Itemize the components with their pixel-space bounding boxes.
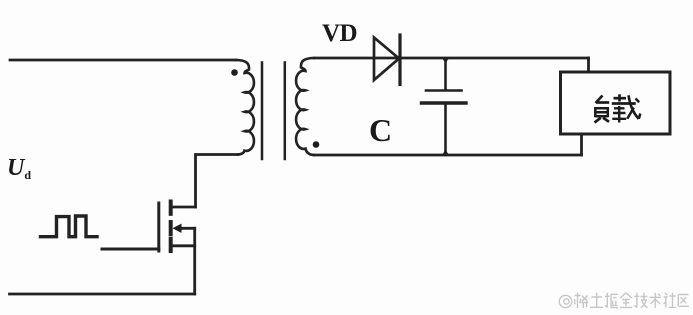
wire: gate lead — [102, 248, 159, 251]
load box — [561, 72, 671, 134]
wire: drain lead — [173, 206, 196, 209]
MOSFET Q1 drain bar — [169, 202, 173, 214]
社 — [664, 293, 677, 308]
载 — [618, 94, 621, 101]
MOSFET Q1 source bar — [169, 239, 173, 251]
node: capacitor top junction — [442, 57, 450, 64]
transformer T1 primary winding — [236, 60, 254, 155]
负 — [596, 96, 603, 104]
土 — [590, 293, 603, 308]
capacitor C bottom plate — [422, 101, 467, 104]
技 — [635, 293, 648, 308]
@ — [559, 295, 571, 307]
capacitor C top plate — [426, 89, 462, 92]
transformer T1 secondary winding — [296, 58, 314, 155]
label VD — [322, 20, 357, 48]
wire: DC input positive rail (top left) — [10, 59, 236, 62]
MOSFET Q1 gate line — [157, 203, 160, 251]
diode VD triangle — [374, 38, 399, 81]
polarity dot (secondary) — [313, 141, 320, 148]
wire: secondary top rail — [314, 57, 589, 60]
掘 — [605, 293, 618, 308]
区 — [678, 295, 689, 307]
wire: capacitor top lead — [444, 59, 447, 91]
node: capacitor bottom junction — [442, 150, 449, 156]
wire: capacitor bottom lead — [444, 105, 447, 156]
diode VD cathode bar — [398, 35, 401, 85]
wire: source down to bottom rail — [193, 228, 196, 294]
wire: DC input negative rail (bottom left) — [10, 293, 195, 296]
watermark @稀土掘金技术社区 — [559, 293, 689, 308]
gate drive pulse waveform — [41, 216, 98, 237]
wire: secondary bottom rail — [314, 154, 582, 157]
wire: load bottom lead — [580, 134, 583, 155]
transformer core line (right) — [284, 63, 287, 160]
MOSFET Q1 body bar — [169, 222, 173, 234]
polarity dot (primary) — [231, 69, 238, 76]
label C — [369, 112, 392, 149]
术 — [650, 293, 662, 308]
稀 — [575, 293, 589, 308]
MOSFET Q1 body arrow — [180, 227, 195, 230]
label: 负载 (load) drawn glyphs — [595, 94, 641, 122]
wire: primary bottom to drain vertical — [196, 155, 239, 208]
transformer core line (left) — [261, 63, 264, 160]
wire: source lead — [173, 244, 195, 247]
wire: load top lead — [587, 58, 590, 72]
label U_d — [7, 155, 31, 183]
金 — [620, 293, 632, 308]
